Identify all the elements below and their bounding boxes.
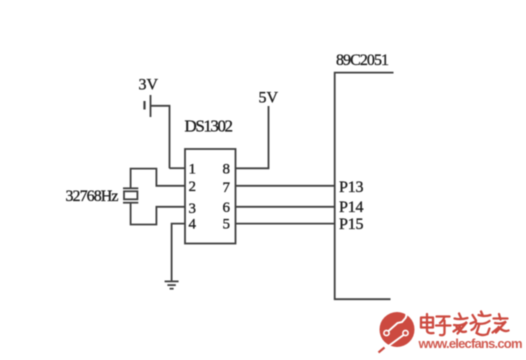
wire crystal bottom to pin3 [131, 203, 185, 225]
svg-text:89C2051: 89C2051 [336, 52, 389, 69]
crystal Y1 32768Hz [123, 188, 138, 202]
wire pin6 P14 [236, 206, 335, 208]
ground [165, 281, 179, 288]
svg-text:P13: P13 [339, 179, 364, 196]
svg-text:5V: 5V [259, 89, 279, 106]
svg-text:3: 3 [189, 201, 197, 217]
svg-text:P14: P14 [339, 199, 364, 216]
wire 5V to pin8 [236, 106, 269, 168]
wire battery to pin1 vertical [151, 106, 170, 169]
wire pin5 P15 [236, 223, 335, 225]
svg-text:32768Hz: 32768Hz [66, 188, 119, 205]
svg-text:2: 2 [189, 179, 197, 195]
watermark text dianzifashaoyou [421, 312, 509, 336]
svg-text:DS1302: DS1302 [185, 117, 234, 136]
IC U2 89C2051 partial outline [335, 73, 394, 300]
svg-text:3V: 3V [139, 77, 159, 94]
svg-text:4: 4 [189, 217, 197, 233]
svg-text:6: 6 [223, 200, 231, 216]
wire pin1 [170, 167, 186, 169]
battery B1 3V symbol [145, 95, 151, 117]
svg-text:www.elecfans.com: www.elecfans.com [418, 336, 523, 351]
IC U1 DS1302 box [185, 149, 236, 244]
wire pin7 P13 [236, 185, 335, 187]
watermark logo elecfans [379, 310, 415, 353]
wire pin4 to ground [172, 224, 185, 281]
wire crystal top to pin2 [131, 169, 185, 189]
svg-text:7: 7 [223, 180, 231, 196]
svg-text:1: 1 [189, 161, 197, 177]
svg-text:5: 5 [223, 217, 231, 233]
svg-text:8: 8 [223, 161, 231, 177]
svg-text:P15: P15 [339, 216, 364, 233]
